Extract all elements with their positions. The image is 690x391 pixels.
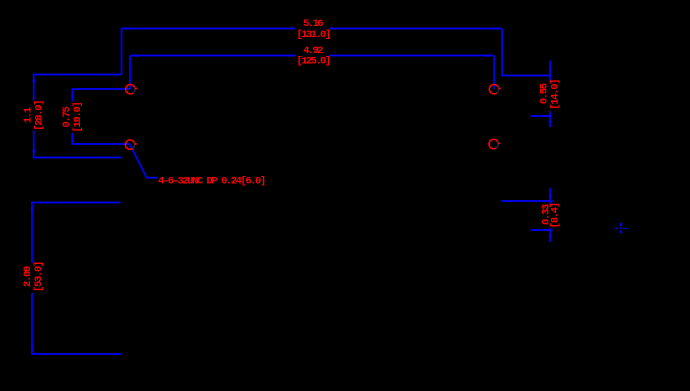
dimension 1.1 [28.0] line lower segment (33, 131, 35, 158)
bottom extension line of 2.09 (31, 353, 121, 355)
extension line to hole C2 (72, 143, 130, 145)
dimension 1.1 [28.0] line upper segment (33, 75, 35, 101)
svg-text:[19.0]: [19.0] (72, 102, 84, 132)
svg-text:[53.0]: [53.0] (33, 262, 45, 292)
dimension 0.55 [14.0] line lower segment (549, 112, 551, 128)
top extension line of 2.09 (31, 202, 121, 204)
center mark horizontal right dot (626, 228, 627, 229)
top extension line of 0.33 (501, 200, 553, 202)
leader diagonal from hole C2 (130, 145, 147, 178)
center mark vertical bottom dash (620, 230, 622, 233)
center mark vertical top dash (620, 223, 622, 226)
arrow top of 1.1 (32, 75, 35, 83)
top right extension line (502, 75, 551, 77)
dimension 0.75 [19.0] line upper segment (71, 89, 73, 102)
bottom extension line of 0.33 (531, 229, 553, 231)
dimension 5.16 [131.0] line left segment (122, 28, 296, 30)
hole C4 drill circle (489, 139, 498, 148)
dimension 0.75 [19.0] line lower segment (71, 133, 73, 144)
svg-text:[28.0]: [28.0] (34, 101, 46, 131)
extension line left of 5.16 (121, 29, 123, 75)
svg-text:[8.4]: [8.4] (550, 203, 562, 228)
center mark horizontal right dash (623, 228, 625, 229)
arrow top of 0.33 outside (549, 194, 552, 201)
dimension 0.55 [14.0] line upper segment (549, 61, 551, 83)
hole C3 arc tick (499, 88, 501, 90)
dimension 4.92 [125.0] line right segment (329, 55, 494, 57)
hole C4 arc tick (498, 142, 500, 144)
mid right extension line of 0.55 (531, 115, 553, 117)
leader horizontal segment (147, 177, 157, 179)
arrow bottom of 0.55 outside (549, 116, 552, 123)
center mark center dot (620, 227, 622, 229)
dimension 2.09 [53.0] line lower segment (31, 293, 33, 354)
dimension 4.92 [125.0] line left segment (130, 55, 296, 57)
dimension 2.09 [53.0] line upper segment (31, 203, 33, 264)
hole C2 arc tick (135, 143, 137, 145)
arrow top of 0.75 (71, 89, 74, 97)
center mark horizontal left dash (615, 228, 618, 229)
svg-text:[125.0]: [125.0] (297, 56, 330, 68)
dimension 0.33 [8.4] line upper segment (549, 188, 551, 207)
svg-text:[131.0]: [131.0] (297, 29, 330, 41)
top edge extension line left (33, 74, 122, 76)
extension line left of 4.92 to hole C1 (129, 56, 131, 90)
hole C2 drill circle (125, 140, 134, 149)
arrow bottom of 0.75 (71, 136, 74, 144)
dimension 5.16 [131.0] line right segment (329, 28, 502, 30)
arrow top of 2.09 (31, 203, 34, 211)
dimension 0.33 [8.4] line lower segment (549, 228, 551, 242)
arrow bottom of 0.33 outside (549, 230, 552, 237)
arrow top of 0.55 outside (549, 69, 552, 76)
hole C1 drill circle (126, 85, 135, 94)
arrow right of 5.16 (494, 27, 502, 30)
svg-text:4-6-32UNC DP 0.24[6.0]: 4-6-32UNC DP 0.24[6.0] (158, 176, 265, 188)
arrow bottom of 2.09 (31, 346, 34, 354)
hole C4 thread arc (489, 139, 498, 148)
hole C2 thread arc (125, 140, 134, 149)
hole C1 thread arc (126, 85, 135, 94)
arrow bottom of 1.1 (32, 150, 35, 158)
hole C3 thread arc (489, 85, 498, 94)
hole C3 drill circle (489, 85, 498, 94)
svg-text:[14.0]: [14.0] (550, 80, 562, 110)
extension line right of 5.16 (501, 29, 503, 76)
extension line to hole C1 (72, 88, 130, 90)
arrow left of 4.92 (130, 54, 138, 57)
arrow left of 5.16 (122, 27, 130, 30)
extension line right of 4.92 to hole C3 (493, 56, 495, 90)
bottom extension line of 1.1 (33, 157, 121, 159)
arrow right of 4.92 (486, 54, 494, 57)
hole C1 arc tick (135, 88, 137, 90)
